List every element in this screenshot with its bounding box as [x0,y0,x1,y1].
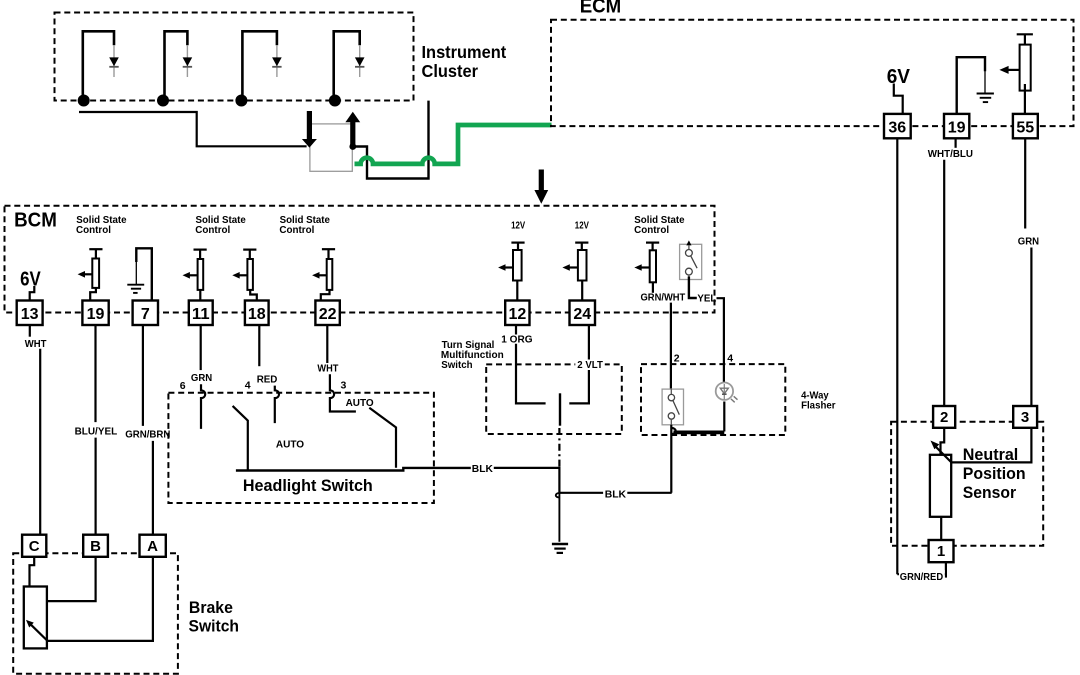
wire WHT/BLU down to sensor pin 2 [943,160,945,406]
turn signal switch dashed box [486,364,622,434]
indicator lamp L4 diode bar [355,66,364,68]
svg-text:GRN/WHT: GRN/WHT [641,292,686,304]
wire flasher switch down [670,425,672,493]
svg-text:Flasher: Flasher [801,399,835,411]
indicator lamp L2 wire hook [165,31,188,100]
BCM pin 18 [245,301,269,326]
indicator lamp L2 diode bar [183,66,192,68]
ECM pin 19 [944,114,969,138]
brake pin C [22,535,46,557]
svg-text:AUTO: AUTO [346,397,374,409]
indicator lamp L3 wire hook [242,31,277,100]
svg-text:12V: 12V [575,220,589,232]
wire pin C to sensor element [30,557,35,587]
junction loop at BLK corner [556,493,560,498]
wire GRN down to sensor pin 3 [1030,248,1032,407]
junction dot node L1 [78,95,90,107]
12V feed resistor (pin 24) [575,242,588,244]
svg-text:WHT: WHT [317,363,339,375]
wire stub below pin 12 [515,325,517,334]
svg-text:19: 19 [87,306,105,323]
ground symbol (chassis) [552,543,568,546]
wire stub below ECM pin 19 [954,138,956,148]
BCM pin 13 [17,301,43,326]
svg-text:11: 11 [192,306,210,323]
wire below junction to ground [558,493,560,542]
svg-text:19: 19 [948,119,966,136]
svg-text:C: C [29,538,40,555]
svg-text:Control: Control [76,224,111,236]
BCM pin 7 [133,301,158,326]
sensor pin 1 [929,540,954,562]
arrow on ECM pin 55 resistor [1006,69,1020,71]
brake switch wiper arrow [30,624,48,641]
wire VLT to right contact [569,325,589,403]
ECM pin 36 [884,114,911,138]
sensor pin 2 [933,406,955,428]
wire ECM pin 36 down [896,138,898,574]
wire pin A to sensor [47,557,153,641]
wire BLK to junction [494,468,560,493]
svg-text:6V: 6V [887,66,911,88]
svg-text:GRN: GRN [1018,235,1039,247]
svg-text:4: 4 [727,353,733,365]
indicator lamp L1 diode lead [113,45,115,77]
wire BLK to flasher [627,492,671,494]
svg-text:13: 13 [21,306,39,323]
svg-text:Cluster: Cluster [422,61,479,81]
wire below pin 7 [142,325,144,426]
wire GRN/WHT down to flasher switch [670,303,672,390]
wire below pin 22 [326,325,328,363]
svg-text:Headlight Switch: Headlight Switch [243,476,373,495]
flasher relay outline box [310,124,352,171]
svg-text:AUTO: AUTO [276,438,304,450]
brake switch sensor element [24,587,47,649]
BCM pin 19 [82,301,108,326]
svg-text:A: A [147,538,158,555]
ground symbol above BCM pin 7 [136,248,152,301]
solid state control resistor (pin 11) [194,249,207,251]
wire ORG to left contact [516,344,546,404]
wire WHT down to pin C [39,349,41,535]
svg-text:7: 7 [141,306,150,323]
flasher switch symbol [662,389,683,425]
svg-text:55: 55 [1016,119,1034,136]
arrow into BCM (down) [539,170,544,191]
svg-text:Instrument: Instrument [422,42,507,62]
headlight switch dashed box [168,393,434,503]
sensor pin 3 [1013,406,1037,428]
svg-text:YEL: YEL [697,293,717,305]
brake pin B [83,535,108,557]
svg-text:36: 36 [888,119,906,136]
svg-text:3: 3 [341,380,347,392]
junction dot node L4 [329,95,341,107]
wire below pin 11 [200,325,202,370]
headlight switch lever (right) [369,408,396,468]
flasher heavy bus [674,430,725,434]
solid state control resistor (pin 22) [322,248,335,250]
svg-text:Sensor: Sensor [963,484,1017,502]
svg-text:B: B [90,538,101,555]
12V feed resistor (pin 12) [511,242,524,244]
brake switch dashed box [13,553,178,674]
turn signal switch lever [559,393,561,425]
indicator lamp L1 diode bar [109,66,118,68]
svg-text:WHT/BLU: WHT/BLU [928,148,973,160]
indicator lamp L2 diode lead [186,45,188,77]
wire YEL down to flasher lamp [717,298,724,382]
indicator lamp L2 diode [183,57,193,66]
label GRN/RED [899,570,945,581]
svg-text:BLU/YEL: BLU/YEL [75,425,118,437]
wire stub below pin 1 [945,562,947,577]
svg-text:18: 18 [248,306,266,323]
svg-text:RED: RED [257,373,278,385]
BCM pin 22 [315,301,339,326]
terminal 6 hook [201,384,205,429]
svg-text:Switch: Switch [189,618,240,636]
junction dot node L2 [157,95,169,107]
indicator lamp (4-way) [716,383,733,400]
mechanical link dashes [558,428,560,467]
hazard switch symbol (BCM) [680,244,702,279]
terminal 4 hook [275,386,279,424]
headlight switch common bus [236,468,471,471]
svg-text:12V: 12V [511,220,525,232]
BCM pin 12 [505,301,529,326]
svg-text:2: 2 [674,353,680,365]
svg-text:6V: 6V [20,269,41,291]
junction dot node L3 [235,95,247,107]
svg-text:3: 3 [1021,409,1029,426]
wire hazard switch to YEL [689,277,697,299]
indicator lamp L3 diode lead [276,45,278,77]
svg-text:BLK: BLK [605,488,627,500]
svg-text:1: 1 [937,543,945,560]
svg-text:Position: Position [963,465,1026,483]
resistor above ECM pin 55 [1017,33,1033,35]
solid state control resistor (GRN/WHT) [646,242,659,244]
wire lamp to heavy bus [723,402,725,432]
svg-text:Brake: Brake [189,599,233,617]
svg-text:BCM: BCM [14,209,57,231]
wire resistor to pin 1 [940,517,942,540]
BCM pin 24 [570,301,596,326]
wire from up-arrow to cluster right corner [353,101,429,179]
headlight switch lever (left) [233,406,248,471]
svg-text:24: 24 [573,306,591,323]
wire BLK junction to right [559,492,603,494]
indicator lamp L1 wire hook [83,31,114,100]
ECM pin 55 [1013,114,1038,138]
wire 6V to pin 36 [894,84,903,114]
svg-text:Control: Control [195,224,230,236]
wire below pin 19 [94,325,96,422]
4-way flasher dashed box [641,364,785,435]
svg-text:Switch: Switch [441,359,472,371]
svg-text:GRN/BRN: GRN/BRN [125,428,170,440]
indicator lamp L4 wire hook [334,31,360,100]
sensor wiper arrow [936,447,952,463]
indicator lamp L3 diode bar [272,66,281,68]
indicator lamp L3 diode [272,57,282,66]
arrow out of flasher (up) [345,112,360,122]
wire 6V to pin 13 [30,286,35,301]
svg-text:1 ORG: 1 ORG [501,333,532,345]
wire stub below pin 13 [29,325,31,337]
svg-text:6: 6 [180,380,186,392]
wire from cluster bus to flasher module [79,112,307,146]
BCM pin 11 [189,301,213,326]
svg-text:2 VLT: 2 VLT [577,359,603,371]
wire ECM pin 55 down [1024,138,1026,228]
solid state control resistor (pin 18) [243,249,256,251]
svg-text:12: 12 [508,306,526,323]
instrument cluster dashed box [55,13,414,101]
wire pin B to sensor [47,557,96,601]
wire pin 2 to resistor [941,428,945,455]
svg-text:WHT: WHT [25,338,47,350]
BCM dashed box [5,206,715,313]
svg-text:22: 22 [319,306,337,323]
wire GRN/RED horizontal [897,573,946,575]
label 2 VLT [575,360,605,371]
green highlighted wire to ECM [355,125,552,164]
solid state control resistor (pin 19) [89,248,102,250]
wire BLU/YEL down to pin B [94,438,96,535]
svg-text:Control: Control [634,224,669,236]
svg-text:GRN/RED: GRN/RED [900,571,944,583]
junction loop at flasher bus [671,428,675,434]
ECM dashed box [551,20,1074,126]
brake pin A [140,535,166,557]
junction dot at up-arrow base [349,143,356,150]
svg-text:2: 2 [940,409,948,426]
indicator lamp L4 diode lead [359,45,361,77]
svg-text:BLK: BLK [472,463,493,475]
wire GRN/BRN down to pin A [152,441,154,535]
indicator lamp L4 diode [355,57,365,66]
neutral position sensor dashed box [891,422,1043,546]
wire below pin 18 [258,325,260,366]
svg-text:4: 4 [245,380,251,392]
sensor resistor element [930,455,951,517]
svg-text:GRN: GRN [191,372,212,384]
arrow into flasher (down) [307,111,312,140]
svg-text:Control: Control [279,224,314,236]
ground symbol (ECM) [957,57,985,114]
indicator lamp L1 diode [109,57,119,66]
wire pin 3 to wiper [952,428,1032,463]
svg-text:ECM: ECM [580,0,622,17]
terminal 3 hook and contact [330,374,356,411]
